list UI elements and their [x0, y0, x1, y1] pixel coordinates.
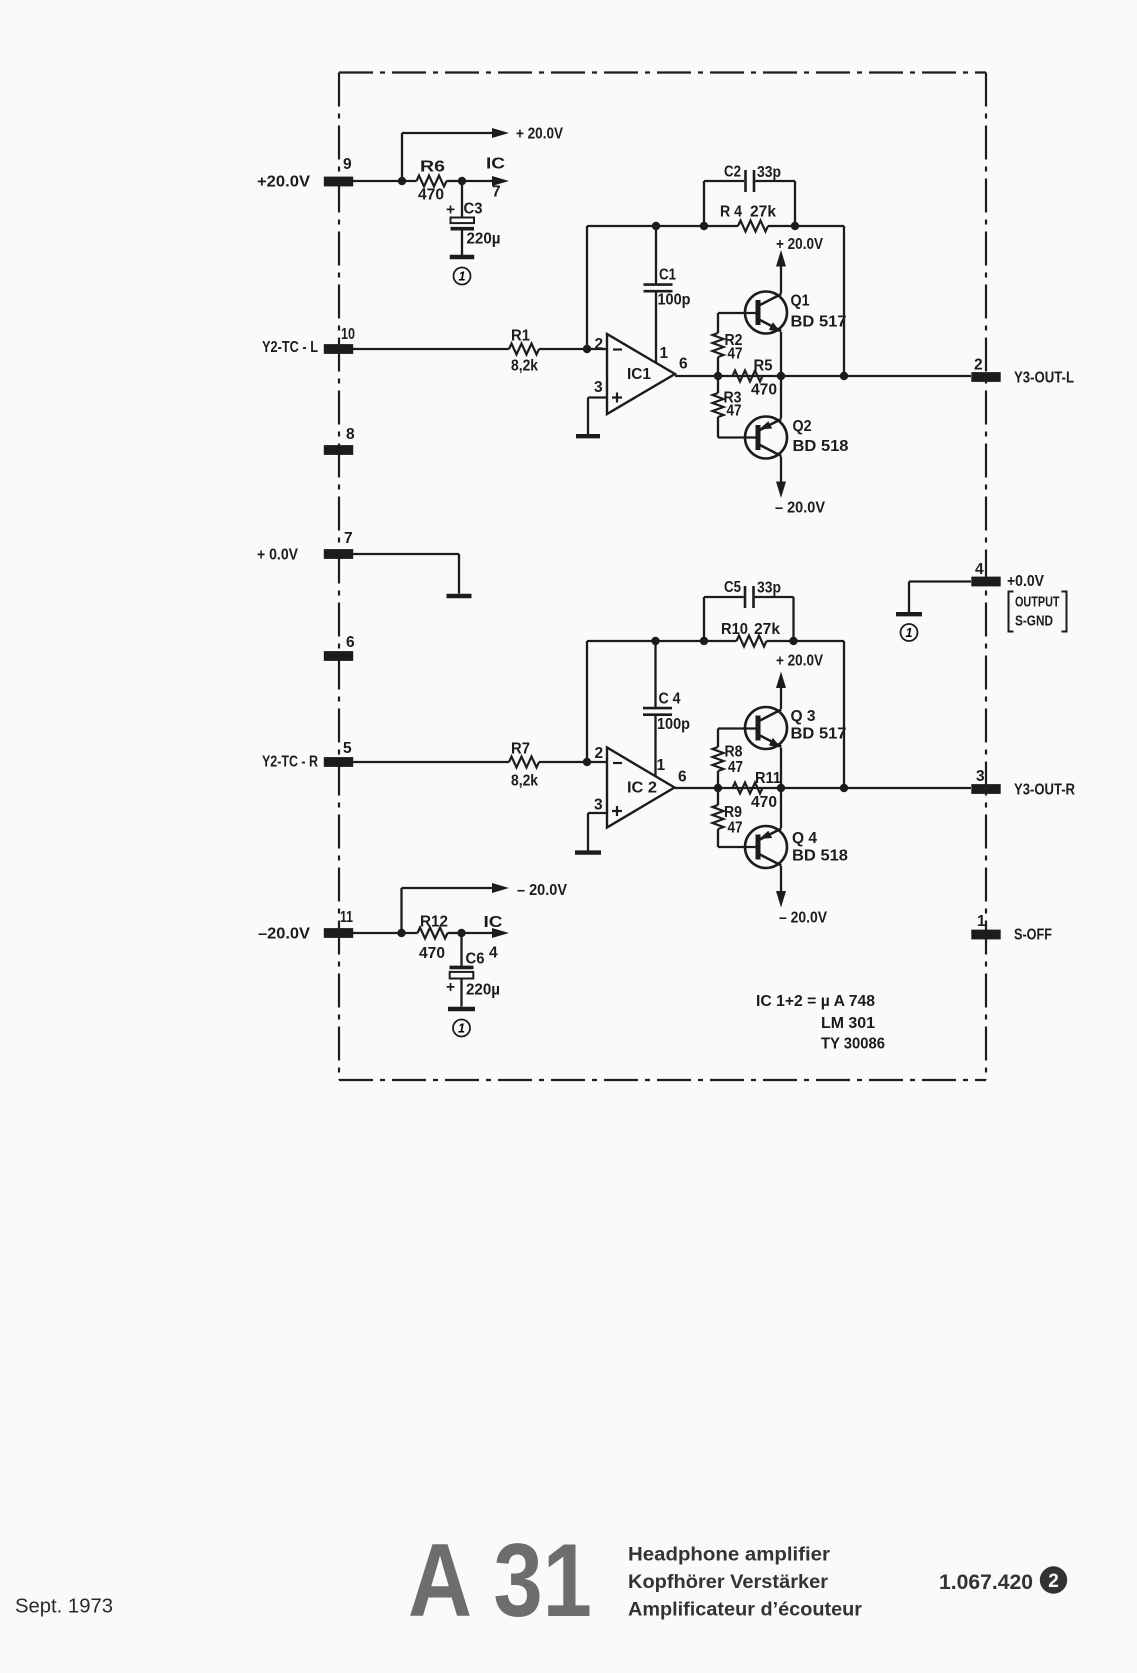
svg-text:100p: 100p	[657, 716, 690, 733]
svg-text:BD 517: BD 517	[791, 725, 847, 742]
svg-text:47: 47	[727, 402, 742, 419]
svg-text:C 4: C 4	[659, 690, 681, 707]
svg-text:R7: R7	[511, 740, 530, 757]
svg-text:2: 2	[595, 336, 604, 353]
svg-text:1: 1	[459, 270, 466, 284]
svg-text:C2: C2	[724, 163, 741, 180]
svg-text:R8: R8	[725, 743, 743, 760]
svg-text:8,2k: 8,2k	[511, 357, 538, 374]
svg-text:470: 470	[419, 945, 445, 962]
svg-text:33p: 33p	[757, 580, 781, 597]
svg-text:5: 5	[343, 740, 352, 757]
svg-text:2: 2	[974, 357, 983, 374]
svg-text:Y3-OUT-R: Y3-OUT-R	[1014, 781, 1075, 798]
svg-text:9: 9	[343, 156, 352, 173]
svg-text:Y2-TC - L: Y2-TC - L	[262, 339, 318, 356]
svg-text:1: 1	[977, 913, 986, 930]
svg-text:47: 47	[728, 759, 743, 776]
svg-text:11: 11	[340, 909, 353, 926]
svg-text:1: 1	[657, 757, 666, 774]
svg-text:C1: C1	[659, 266, 676, 283]
svg-text:47: 47	[728, 346, 743, 363]
svg-text:C3: C3	[464, 201, 483, 218]
svg-text:Q2: Q2	[793, 418, 812, 435]
svg-text:+20.0V: +20.0V	[257, 174, 311, 191]
svg-text:R5: R5	[754, 357, 773, 374]
svg-text:7: 7	[344, 530, 353, 547]
svg-text:47: 47	[728, 819, 743, 836]
svg-text:33p: 33p	[757, 164, 781, 181]
svg-text:IC 2: IC 2	[627, 780, 657, 797]
svg-text:470: 470	[751, 794, 777, 811]
svg-text:+ 20.0V: + 20.0V	[776, 652, 824, 669]
svg-text:S-GND: S-GND	[1015, 614, 1053, 630]
svg-text:C6: C6	[466, 951, 485, 968]
svg-text:1: 1	[660, 345, 669, 362]
svg-text:– 20.0V: – 20.0V	[779, 910, 828, 927]
svg-text:6: 6	[346, 634, 355, 651]
svg-text:2: 2	[595, 745, 604, 762]
svg-text:R 4: R 4	[720, 203, 742, 220]
svg-text:Headphone amplifier: Headphone amplifier	[628, 1543, 830, 1565]
svg-text:Q 3: Q 3	[791, 708, 816, 725]
svg-text:BD 518: BD 518	[792, 847, 848, 864]
svg-text:–20.0V: –20.0V	[258, 925, 311, 942]
svg-text:+: +	[446, 202, 455, 219]
svg-text:1: 1	[458, 1022, 465, 1036]
svg-text:7: 7	[492, 184, 501, 201]
svg-text:R9: R9	[724, 804, 742, 821]
svg-text:A 31: A 31	[408, 1523, 592, 1639]
svg-text:470: 470	[751, 382, 777, 399]
svg-text:+ 20.0V: + 20.0V	[516, 126, 564, 143]
svg-text:+: +	[446, 979, 455, 996]
svg-text:Y3-OUT-L: Y3-OUT-L	[1014, 369, 1074, 386]
svg-text:+0.0V: +0.0V	[1007, 573, 1045, 590]
svg-text:3: 3	[594, 796, 603, 813]
svg-text:Y2-TC - R: Y2-TC - R	[262, 754, 318, 771]
svg-text:27k: 27k	[750, 203, 776, 220]
svg-text:IC: IC	[484, 914, 503, 931]
svg-text:IC 1+2 = µ A 748: IC 1+2 = µ A 748	[756, 993, 875, 1010]
svg-text:6: 6	[679, 356, 688, 373]
svg-text:C5: C5	[724, 579, 741, 596]
svg-text:– 20.0V: – 20.0V	[517, 882, 568, 899]
svg-text:1: 1	[906, 626, 913, 640]
svg-text:R10: R10	[721, 621, 748, 638]
svg-text:Sept. 1973: Sept. 1973	[15, 1596, 113, 1618]
svg-text:100p: 100p	[658, 292, 691, 309]
svg-text:S-OFF: S-OFF	[1014, 927, 1052, 944]
svg-text:27k: 27k	[754, 621, 780, 638]
svg-text:Amplificateur d’écouteur: Amplificateur d’écouteur	[628, 1599, 862, 1621]
svg-text:220µ: 220µ	[467, 230, 501, 247]
svg-text:R1: R1	[511, 327, 530, 344]
svg-text:R12: R12	[420, 914, 448, 931]
svg-text:BD 517: BD 517	[791, 313, 847, 330]
svg-text:BD 518: BD 518	[793, 438, 849, 455]
svg-text:– 20.0V: – 20.0V	[775, 499, 826, 516]
svg-text:Q1: Q1	[791, 292, 810, 309]
svg-text:R6: R6	[420, 159, 445, 176]
svg-text:OUTPUT: OUTPUT	[1015, 594, 1060, 610]
svg-text:2: 2	[1048, 1571, 1059, 1592]
svg-text:8,2k: 8,2k	[511, 772, 538, 789]
svg-text:4: 4	[489, 944, 498, 961]
svg-text:TY 30086: TY 30086	[821, 1035, 885, 1052]
svg-text:4: 4	[975, 561, 984, 578]
svg-text:1.067.420: 1.067.420	[939, 1571, 1033, 1594]
svg-text:6: 6	[678, 768, 687, 785]
svg-text:470: 470	[418, 187, 444, 204]
svg-text:IC1: IC1	[627, 366, 651, 383]
svg-text:LM 301: LM 301	[821, 1015, 875, 1032]
svg-text:8: 8	[346, 426, 355, 443]
svg-text:3: 3	[594, 379, 603, 396]
svg-text:IC: IC	[486, 156, 505, 173]
svg-text:+ 20.0V: + 20.0V	[776, 236, 824, 253]
svg-text:Q 4: Q 4	[792, 830, 817, 847]
svg-text:Kopfhörer Verstärker: Kopfhörer Verstärker	[628, 1571, 828, 1593]
svg-text:+ 0.0V: + 0.0V	[257, 546, 299, 563]
svg-text:10: 10	[341, 326, 355, 343]
svg-text:3: 3	[976, 768, 985, 785]
svg-text:220µ: 220µ	[466, 981, 500, 998]
svg-text:R11: R11	[755, 770, 781, 787]
